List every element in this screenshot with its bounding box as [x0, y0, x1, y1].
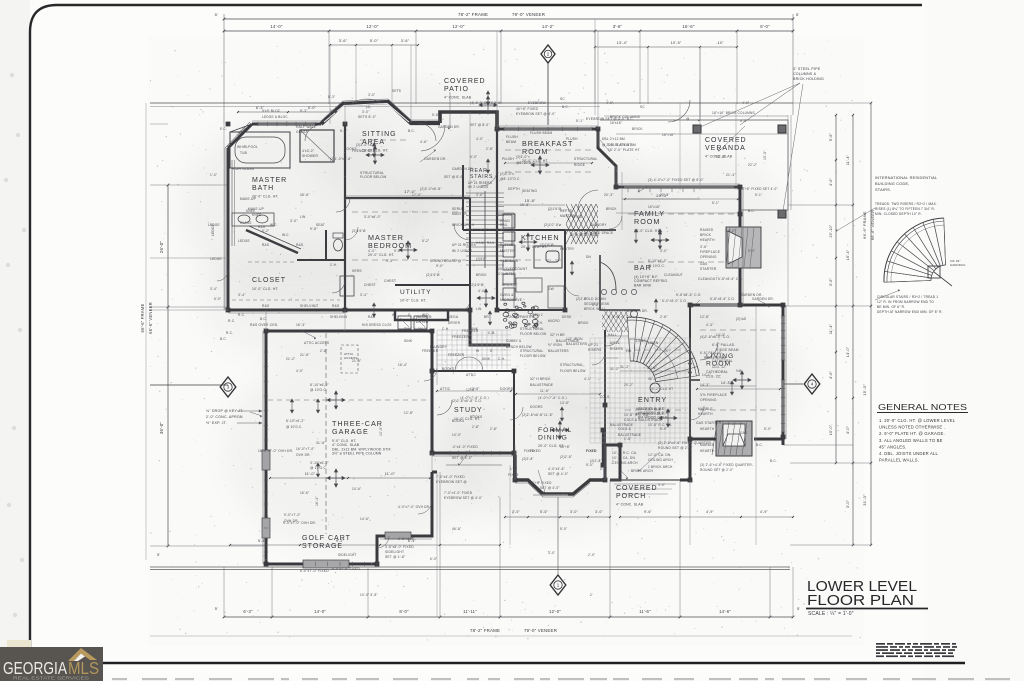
veranda columns: [693, 125, 701, 133]
svg-text:21'-6": 21'-6": [352, 359, 361, 363]
stair detail hub: [928, 266, 940, 278]
garage doors: [262, 450, 270, 470]
chest cabinet: [340, 276, 354, 296]
wall: garage doors front: [432, 471, 437, 474]
svg-text:SEATING: SEATING: [522, 189, 537, 193]
svg-text:DN: DN: [586, 255, 592, 259]
family room fireplace: [726, 227, 761, 268]
master bath shower: [300, 130, 334, 162]
pantry lattice: [556, 204, 616, 244]
svg-text:C.H.: C.H.: [330, 263, 337, 267]
entry tile grid: [590, 338, 690, 443]
svg-text:45° ANGLES.: 45° ANGLES.: [879, 444, 907, 449]
svg-text:4'-0": 4'-0": [476, 137, 483, 141]
svg-text:ROUND SET @ 2'-0": ROUND SET @ 2'-0": [700, 468, 733, 472]
svg-text:TREADS: TWO RISERS / R2+2 / MA: TREADS: TWO RISERS / R2+2 / MAX.: [875, 202, 937, 206]
exterior wall: garage left: [265, 331, 268, 564]
svg-text:FREEZER: FREEZER: [462, 329, 479, 333]
svg-text:2': 2': [590, 593, 593, 597]
bottom edge faint next-page text: [112, 678, 1010, 680]
svg-text:B.C.: B.C.: [562, 105, 569, 109]
svg-text:21'-2": 21'-2": [286, 357, 295, 361]
exterior wall: master bath angled corner: [228, 124, 252, 148]
svg-text:MAKE-UP: MAKE-UP: [248, 207, 264, 211]
mud room tile grid: [437, 330, 511, 369]
svg-text:3'-0": 3'-0": [512, 510, 521, 514]
svg-text:DEPTH AT NARROW END MIN. OF 8": DEPTH AT NARROW END MIN. OF 8" R.: [877, 310, 943, 314]
svg-text:W.C.: W.C.: [270, 223, 278, 227]
svg-text:BOOKS: BOOKS: [442, 367, 454, 371]
svg-text:16'-6": 16'-6": [682, 24, 694, 29]
exterior wall: sitting area bay: [321, 102, 440, 124]
svg-text:(2)1'6"Ø: (2)1'6"Ø: [548, 207, 562, 211]
svg-text:5'-1": 5'-1": [712, 201, 719, 205]
stair handrail volute: [650, 383, 660, 393]
svg-text:LEDGE: LEDGE: [238, 239, 250, 243]
svg-text:5'-0"×8'-0" C.O.: 5'-0"×8'-0" C.O.: [662, 299, 687, 303]
svg-text:12'-0": 12'-0": [366, 24, 378, 29]
svg-text:(2)¼Ø: (2)¼Ø: [736, 317, 746, 321]
exterior wall: garage right: [432, 331, 437, 453]
ceiling beam dashed lines: [352, 211, 466, 213]
svg-text:46'-0": 46'-0": [452, 527, 461, 531]
svg-text:(2)2'-8": (2)2'-8": [590, 459, 602, 463]
svg-text:EYEBROW: EYEBROW: [528, 101, 546, 105]
svg-text:4'-0": 4'-0": [606, 101, 613, 105]
svg-text:R.C.: R.C.: [238, 313, 245, 317]
garage inner dim: [270, 477, 430, 479]
svg-text:10'-0": 10'-0": [452, 433, 461, 437]
svg-text:BRICK: BRICK: [476, 273, 487, 277]
svg-text:6'-0"x7'-0" FIXED: 6'-0"x7'-0" FIXED: [332, 567, 360, 571]
svg-text:1. 20'-0" CLG. HT. @ LOWER LE: 1. 20'-0" CLG. HT. @ LOWER LEVEL: [879, 418, 956, 423]
interior dim ticks small rows: [345, 198, 470, 200]
svg-text:5'-0": 5'-0": [540, 510, 549, 514]
svg-text:5': 5': [215, 12, 218, 17]
svg-text:14'-6": 14'-6": [360, 517, 369, 521]
svg-text:BRICK: BRICK: [578, 321, 589, 325]
svg-text:R.C.: R.C.: [226, 331, 233, 335]
svg-text:5'-1": 5'-1": [755, 193, 762, 197]
svg-text:22'-2": 22'-2": [748, 163, 757, 167]
corner jamb blocks: [495, 127, 500, 132]
exterior wall: patio recess: [440, 112, 497, 129]
svg-text:W.C.: W.C.: [282, 233, 290, 237]
upper slab edge long line (patio/veranda): [150, 102, 793, 104]
scan speckle noise: [150, 40, 861, 641]
svg-text:UNLESS NOTED OTHERWISE .: UNLESS NOTED OTHERWISE .: [879, 425, 945, 430]
svg-text:LIN: LIN: [476, 307, 482, 311]
toilet: [334, 239, 343, 251]
svg-text:16'-4": 16'-4": [398, 363, 407, 367]
svg-text:CLG. 22': CLG. 22': [712, 365, 726, 369]
right dimension strings: [835, 115, 837, 463]
lower double boundary line: [150, 566, 790, 568]
svg-text:RISERS: RISERS: [610, 347, 623, 351]
left dimension vertical line: [167, 185, 169, 546]
svg-text:OVH DR.: OVH DR.: [284, 519, 299, 523]
svg-text:10'-0" 5'-8": 10'-0" 5'-8": [360, 593, 378, 597]
right witness lines: [793, 102, 871, 104]
svg-text:5'-6": 5'-6": [258, 539, 267, 543]
rear stairs treads: [466, 191, 504, 268]
svg-text:BALUSTERS: BALUSTERS: [548, 349, 569, 353]
svg-text:MEGA: MEGA: [448, 315, 459, 319]
svg-text:2'-8": 2'-8": [486, 147, 493, 151]
exterior wall: formal dining east: [605, 445, 620, 480]
svg-text:32" H BRICK: 32" H BRICK: [530, 377, 551, 381]
interior wall: bath/sitting divider: [344, 124, 346, 198]
bar back lattice: [594, 310, 643, 332]
svg-text:(2)2'-8": (2)2'-8": [576, 297, 588, 301]
svg-text:40'+8": 40'+8": [560, 445, 570, 449]
svg-text:SET @ 8'-0": SET @ 8'-0": [470, 123, 490, 127]
svg-text:79'-0" VENEER: 79'-0" VENEER: [512, 12, 545, 17]
svg-text:RISES (1) 8¼" TO FIFTEEN 7 3/4: RISES (1) 8¼" TO FIFTEEN 7 3/4" R.: [875, 207, 935, 211]
bath vanity + sinks: [232, 213, 274, 226]
svg-text:(2)2'-8": (2)2'-8": [522, 457, 534, 461]
svg-text:½Ø: ½Ø: [736, 369, 742, 373]
svg-text:1'-6": 1'-6": [510, 467, 517, 471]
scan haze over drawing: [148, 36, 864, 646]
fine print block bottom right: [876, 643, 957, 657]
exterior wall: living room south remainder + garden door: [690, 438, 716, 441]
svg-text:W: W: [392, 313, 395, 317]
GeorgiaMLS logo block: [0, 640, 103, 681]
svg-text:GARDEN DR.: GARDEN DR.: [452, 167, 474, 171]
four-way arrow crosses: [366, 146, 384, 164]
svg-text:RIDGE BEAM: RIDGE BEAM: [704, 356, 726, 360]
svg-text:5'-2": 5'-2": [422, 239, 429, 243]
svg-text:5'-0": 5'-0": [586, 463, 593, 467]
svg-text:E.C.: E.C.: [220, 127, 227, 131]
svg-text:@8'-10"O.C.: @8'-10"O.C.: [516, 161, 536, 165]
covered porch slab: [610, 479, 680, 481]
exterior wall: breakfast angled east: [598, 129, 616, 187]
living room top cased opening: [700, 304, 738, 306]
svg-text:36'-2": 36'-2": [648, 377, 657, 381]
svg-text:5'-2": 5'-2": [262, 229, 269, 233]
svg-text:CL: CL: [664, 349, 669, 353]
exterior wall: closet south: [228, 309, 345, 312]
svg-text:OVH DR.: OVH DR.: [296, 453, 311, 457]
svg-text:BR: BR: [484, 315, 489, 319]
svg-text:W/D: W/D: [422, 313, 429, 317]
dimension arrows cross marks: [372, 143, 375, 157]
svg-text:4'-0": 4'-0": [296, 369, 303, 373]
utility washer dryer: [398, 316, 411, 329]
sitting area door arcs: [418, 123, 436, 141]
window glazing marks: [258, 123, 315, 125]
svg-text:B.C.: B.C.: [748, 209, 755, 213]
svg-text:UP 21: UP 21: [610, 341, 620, 345]
svg-text:5'-8": 5'-8": [432, 113, 439, 117]
svg-text:16'-6": 16'-6": [300, 491, 309, 495]
section marker diamond bottom: [550, 575, 566, 595]
svg-text:66'-6" FRAME: 66'-6" FRAME: [140, 304, 145, 333]
svg-text:5': 5': [796, 12, 799, 17]
svg-text:BRICK: BRICK: [606, 207, 617, 211]
svg-text:14'-0": 14'-0": [270, 24, 282, 29]
main curved stair: [627, 317, 699, 375]
svg-text:SHELVING: SHELVING: [330, 315, 348, 319]
interior wall: family west: [565, 229, 616, 231]
svg-text:LINEN: LINEN: [648, 341, 659, 345]
top sub dimension right: 13'-6 / 10'-5: [595, 46, 737, 48]
svg-text:HIS DRESS CLOS: HIS DRESS CLOS: [362, 323, 392, 327]
svg-text:5'-0": 5'-0": [470, 155, 477, 159]
svg-text:RIDGE: RIDGE: [574, 163, 585, 167]
exterior wall: utility / bedroom south: [345, 310, 510, 345]
svg-text:12'-0" CA. DN.: 12'-0" CA. DN.: [648, 453, 672, 457]
svg-text:DESK: DESK: [562, 315, 572, 319]
svg-text:B.C.: B.C.: [408, 129, 415, 133]
window sill hatches: [503, 127, 505, 131]
svg-text:5'-0": 5'-0": [764, 427, 771, 431]
section marker diamond top: [541, 45, 555, 63]
svg-text:10'-6": 10'-6": [352, 487, 361, 491]
interior wall: bath closet divider: [228, 254, 300, 256]
curved stair landing lines: [605, 335, 628, 337]
svg-text:FIXED: FIXED: [524, 449, 535, 453]
interior wall: kitchen south: [497, 309, 565, 311]
svg-text:6'-8": 6'-8": [592, 303, 599, 307]
svg-text:5'-0": 5'-0": [560, 527, 567, 531]
exterior wall: family/bar east: [739, 187, 742, 305]
svg-text:8/4 WOOD COLS.: 8/4 WOOD COLS.: [636, 412, 665, 416]
svg-text:CIRCULAR STAIRS / R3+2 / TREAD: CIRCULAR STAIRS / R3+2 / TREAD 1: [877, 295, 938, 299]
svg-text:2'-8": 2'-8": [472, 425, 479, 429]
brick veneer offset lines: [252, 120, 321, 122]
svg-text:4'-1": 4'-1": [584, 377, 591, 381]
svg-text:12'-8": 12'-8": [716, 155, 725, 159]
inner dimension rows: [238, 111, 336, 113]
interior wall: study doors: [455, 357, 469, 371]
svg-text:LIN: LIN: [300, 215, 306, 219]
interior wall: sitting/bedroom opening: [345, 197, 470, 199]
svg-text:BOOKS: BOOKS: [452, 419, 464, 423]
svg-text:2. 9'-0" PLATE HT. @ GARAGE.: 2. 9'-0" PLATE HT. @ GARAGE.: [879, 431, 945, 436]
wall: dining east: [602, 428, 604, 467]
svg-text:16"×16": 16"×16": [662, 133, 675, 137]
svg-text:(3) 2'-6"×4'-6" FIXED QUARTER-: (3) 2'-6"×4'-6" FIXED QUARTER-: [700, 463, 753, 467]
svg-text:5'-0": 5'-0": [748, 249, 755, 253]
svg-text:GAS: GAS: [740, 431, 747, 435]
svg-text:SCALE : ¼" = 1'-0": SCALE : ¼" = 1'-0": [808, 611, 854, 617]
svg-text:MIN. CLOSED DEPTH 10" R.: MIN. CLOSED DEPTH 10" R.: [875, 212, 922, 216]
svg-text:FIXED: FIXED: [508, 473, 519, 477]
svg-text:GENERAL NOTES: GENERAL NOTES: [878, 402, 967, 412]
svg-text:FLOOR BELOW: FLOOR BELOW: [560, 369, 586, 373]
svg-text:BE MIN. OF 6" R.: BE MIN. OF 6" R.: [877, 305, 905, 309]
svg-text:3'-0": 3'-0": [548, 551, 555, 555]
interior wall: bar counter: [600, 255, 640, 310]
svg-text:6'-0": 6'-0": [760, 24, 770, 29]
veranda slab edge: [600, 120, 788, 210]
svg-text:4. DBL. JOISTS UNDER ALL: 4. DBL. JOISTS UNDER ALL: [879, 451, 938, 456]
exterior wall: living room top: [690, 304, 783, 307]
svg-text:HEADERS @ 8'-0": HEADERS @ 8'-0": [636, 407, 666, 411]
svg-text:5'-0": 5'-0": [214, 297, 221, 301]
svg-text:REAL ESTATE SERVICES: REAL ESTATE SERVICES: [13, 676, 89, 681]
kitchen cabinet lines: [497, 213, 514, 308]
svg-text:9'-0"×7'-0": 9'-0"×7'-0": [284, 513, 301, 517]
svg-text:14'-0": 14'-0": [726, 229, 735, 233]
svg-text:32" H BR: 32" H BR: [550, 333, 565, 337]
svg-text:DEPTH: DEPTH: [508, 187, 520, 191]
svg-text:COLS &: COLS &: [618, 427, 632, 431]
svg-text:12'-8": 12'-8": [404, 411, 413, 415]
svg-text:GLASS: GLASS: [240, 221, 252, 225]
svg-text:@ 10'G.C.: @ 10'G.C.: [286, 425, 303, 429]
svg-text:16'-0"×7'-0": 16'-0"×7'-0": [296, 447, 315, 451]
exterior wall: breakfast room top (windows): [497, 128, 598, 131]
svg-text:(2)9'8": (2)9'8": [476, 257, 487, 261]
circular stair detail: [884, 218, 944, 282]
svg-text:MICRO: MICRO: [548, 319, 560, 323]
section marker diamond right: [783, 383, 803, 385]
garage column dashed line: [325, 333, 327, 534]
svg-text:9'-6": 9'-6": [644, 510, 653, 514]
svg-text:20'-2" CLG HT: 20'-2" CLG HT: [650, 387, 673, 391]
svg-text:C.H.: C.H.: [536, 321, 543, 325]
svg-text:31'-2": 31'-2": [610, 367, 619, 371]
svg-text:2'-8"×6'-8": 2'-8"×6'-8": [398, 537, 415, 541]
svg-text:14'-3": 14'-3": [716, 333, 725, 337]
door swing arcs extra: [481, 170, 497, 186]
scan gray blooms: [180, 115, 420, 305]
svg-text:B.C.: B.C.: [770, 459, 777, 463]
door swing arcs: [336, 198, 350, 212]
svg-text:11'-8": 11'-8": [544, 413, 553, 417]
svg-text:DRYER: DRYER: [448, 321, 461, 325]
svg-text:16"x16": 16"x16": [648, 205, 660, 209]
svg-text:3'-6": 3'-6": [613, 24, 623, 29]
svg-text:6'-0": 6'-0": [430, 557, 437, 561]
svg-text:(4) 3'-0" SETS 8'-0": (4) 3'-0" SETS 8'-0": [470, 101, 502, 105]
svg-text:STRUCTURAL: STRUCTURAL: [574, 157, 597, 161]
svg-text:13'-8": 13'-8": [560, 401, 569, 405]
svg-text:BENCH BELOW: BENCH BELOW: [506, 345, 532, 349]
svg-text:2'-6": 2'-6": [320, 349, 327, 353]
exterior wall: garage top: [266, 330, 432, 333]
interior wall: dining west: [513, 371, 515, 480]
svg-text:1'-5": 1'-5": [624, 437, 631, 441]
svg-text:10'-8" R.C. CA.: 10'-8" R.C. CA.: [648, 423, 673, 427]
svg-text:12'-8": 12'-8": [700, 315, 709, 319]
svg-text:16"×16" BRICK COLUMNS: 16"×16" BRICK COLUMNS: [712, 111, 755, 115]
svg-text:CUBBY &: CUBBY &: [506, 339, 522, 343]
svg-text:GARDEN DR.: GARDEN DR.: [626, 309, 648, 313]
svg-text:FLUSH BEAM: FLUSH BEAM: [530, 131, 553, 135]
svg-text:1 BRICK ARCH: 1 BRICK ARCH: [648, 465, 673, 469]
exterior wall: study south (windows): [432, 452, 514, 455]
top dimension line overall 78'-2 frame: [224, 18, 793, 20]
svg-text:6'-6" PALLAD.: 6'-6" PALLAD.: [700, 351, 723, 355]
svg-text:5'-0"×8'-0" C.O.: 5'-0"×8'-0" C.O.: [608, 315, 633, 319]
exterior wall: family room top (fixed glass): [616, 186, 740, 189]
kitchen counters: [497, 215, 512, 245]
svg-text:LEDGE: LEDGE: [208, 223, 220, 227]
interior wall: bedroom east / utility: [469, 198, 471, 310]
svg-text:GARDEN DR.: GARDEN DR.: [752, 297, 774, 301]
svg-text:CHEST: CHEST: [364, 283, 376, 287]
svg-text:½" IRON: ½" IRON: [548, 343, 563, 347]
svg-text:SETS: SETS: [392, 89, 401, 93]
svg-text:BUILDING CODE,: BUILDING CODE,: [875, 181, 910, 186]
svg-text:TUB: TUB: [240, 151, 247, 155]
svg-text:4'-9": 4'-9": [706, 510, 715, 514]
svg-text:5'-8"×8'-6" C.O.: 5'-8"×8'-6" C.O.: [710, 297, 735, 301]
interior wall: living west opening: [690, 379, 700, 381]
svg-text:KNEE: KNEE: [252, 213, 261, 217]
svg-text:SINK: SINK: [482, 357, 491, 361]
svg-text:14'-1": 14'-1": [702, 373, 711, 377]
top dimension line room segments: [224, 30, 793, 32]
svg-text:ATTIC ACCESS: ATTIC ACCESS: [304, 341, 329, 345]
closet diagonal wardrobe island: [246, 230, 298, 253]
svg-text:14'-3": 14'-3": [721, 381, 732, 385]
svg-text:9'-2": 9'-2": [336, 539, 345, 543]
svg-text:2'-0": 2'-0": [588, 553, 595, 557]
svg-text:C.M.: C.M.: [488, 331, 496, 335]
svg-text:40'+8" FIXED SET 4'-0": 40'+8" FIXED SET 4'-0": [740, 187, 778, 191]
kitchen island: [534, 246, 562, 268]
svg-text:5'-0": 5'-0": [660, 427, 667, 431]
svg-text:B.C.: B.C.: [260, 317, 267, 321]
exterior wall: storage east jog: [377, 472, 432, 564]
svg-text:INTERNATIONAL RESIDENTIAL: INTERNATIONAL RESIDENTIAL: [875, 175, 938, 180]
exterior wall: master bath left: [227, 148, 230, 310]
svg-text:SIDELIGHT: SIDELIGHT: [338, 553, 357, 557]
svg-text:W/ 2 LNDGS: W/ 2 LNDGS: [452, 249, 472, 253]
svg-text:3'-0": 3'-0": [368, 93, 375, 97]
svg-text:DOORS: DOORS: [530, 405, 543, 409]
svg-text:4'-9": 4'-9": [760, 510, 769, 514]
svg-text:(2)3'-0"×6'-8": (2)3'-0"×6'-8": [356, 143, 377, 147]
svg-text:3'-0": 3'-0": [570, 510, 579, 514]
svg-text:2'-0": 2'-0": [600, 467, 607, 471]
svg-text:20'-2": 20'-2": [624, 383, 633, 387]
svg-text:LEDGE: LEDGE: [210, 257, 222, 261]
svg-text:WHIRLPOOL: WHIRLPOOL: [237, 145, 258, 149]
svg-text:FLOOR BELOW: FLOOR BELOW: [520, 354, 546, 358]
interior wall: kitchen east: [564, 230, 566, 310]
svg-text:FRENCH DRS: FRENCH DRS: [352, 149, 375, 153]
svg-text:17'-0": 17'-0": [404, 189, 416, 194]
svg-text:3'-4": 3'-4": [210, 287, 217, 291]
svg-text:14'-2": 14'-2": [542, 24, 554, 29]
exterior wall: living room east (windows): [782, 306, 785, 445]
svg-text:FLOOR PLAN: FLOOR PLAN: [807, 592, 914, 609]
svg-text:15'-8": 15'-8": [525, 199, 536, 203]
svg-text:DBL 2'×12 BM: DBL 2'×12 BM: [602, 137, 625, 141]
garden door arc at patio recess: [421, 125, 445, 151]
svg-text:11'-6": 11'-6": [647, 366, 658, 370]
bottom witness lines: [223, 567, 225, 617]
svg-text:UP 21 RISERS: UP 21 RISERS: [452, 243, 476, 247]
svg-text:SEAT: SEAT: [316, 223, 325, 227]
svg-text:3'-0": 3'-0": [595, 510, 604, 514]
svg-text:7'-0"×4'-0" FIXED: 7'-0"×4'-0" FIXED: [444, 491, 473, 495]
exterior wall: master suite top: [252, 123, 321, 126]
svg-text:BOOKS: BOOKS: [470, 415, 482, 419]
svg-text:8'-10"×6'-2": 8'-10"×6'-2": [286, 419, 305, 423]
svg-text:GARDEN DR.: GARDEN DR.: [438, 125, 460, 129]
svg-text:COLS: COLS: [600, 395, 609, 399]
svg-text:40'+8" FIXED: 40'+8" FIXED: [530, 481, 552, 485]
svg-text:ATTIC: ATTIC: [466, 373, 476, 377]
